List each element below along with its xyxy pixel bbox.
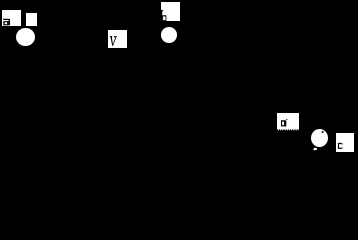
small white dot below node C circle	[313, 148, 317, 151]
node A label box	[2, 10, 21, 26]
node B label box	[161, 2, 180, 21]
V label box	[108, 30, 127, 48]
black dot on node C circle	[322, 131, 324, 133]
small blank box	[26, 13, 38, 27]
node C circle	[311, 129, 329, 148]
letter alpha in alpha label box	[281, 119, 287, 126]
alpha box zigzag bottom edge	[277, 129, 298, 131]
letter V in V label box	[110, 36, 117, 46]
letter c in node C label box	[338, 143, 343, 149]
node A circle	[16, 28, 35, 47]
letter a (italic) in node A label box	[3, 19, 10, 26]
alpha label box	[277, 113, 298, 129]
letter b (italic) in node B label box	[161, 10, 167, 22]
node C label box	[336, 133, 354, 152]
node B circle	[161, 27, 177, 43]
